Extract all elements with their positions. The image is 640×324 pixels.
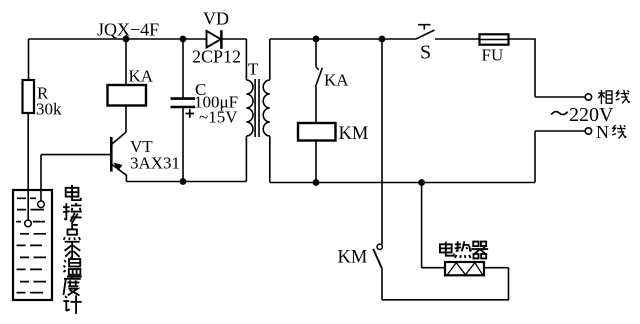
capacitor C polarity plus (186, 109, 195, 117)
label 电接点汞温度计 (electric contact mercury thermometer, vertical) (63, 185, 82, 314)
wire bottom return (382, 268, 509, 300)
thermometer body (13, 190, 52, 300)
wire S to fuse (435, 38, 480, 40)
diode VD triangle (207, 31, 221, 48)
node junction dot at KA branch (123, 36, 130, 43)
resistor R (23, 80, 35, 113)
wire thermometer right contact drop (40, 155, 42, 201)
relay coil KA (108, 85, 147, 106)
heater body (445, 262, 484, 275)
capacitor C top plate (171, 97, 196, 100)
node junction dot KM contact branch (379, 36, 386, 43)
transformer T primary lead top (245, 39, 247, 80)
wire top rail right (270, 38, 416, 40)
node junction dot at C branch (180, 36, 187, 43)
contact KM upper wire (crosses bottom rail, no junction) (381, 39, 383, 245)
terminal phase (585, 94, 591, 100)
wire fuse to right corner (509, 39, 536, 97)
node junction dot heater branch (418, 179, 425, 186)
transistor VT emitter arrow (PNP) (113, 163, 122, 171)
label ~220V (551, 112, 567, 115)
transformer T secondary winding (263, 80, 270, 136)
svg-text:KM: KM (338, 248, 368, 268)
capacitor C top wire (182, 39, 184, 98)
thermometer mercury dashes (16, 198, 46, 292)
node junction dot KM coil bottom (313, 179, 320, 186)
contactor coil KM (298, 123, 336, 141)
svg-text:KM: KM (339, 124, 369, 144)
node junction dot KA contact branch (313, 36, 320, 43)
capacitor C bottom plate (171, 106, 196, 109)
contact KM blade (373, 249, 382, 268)
svg-text:30k: 30k (36, 100, 62, 119)
svg-text:VD: VD (203, 9, 229, 29)
svg-text:~15V: ~15V (199, 108, 238, 127)
wire left vertical upper (28, 39, 30, 80)
wire heater right lead (484, 267, 509, 269)
svg-text:N: N (596, 122, 609, 142)
thermometer contact circle lower (left branch) (25, 220, 32, 227)
label 电热器 (electric heater) (440, 241, 488, 258)
wire base horizontal (41, 154, 110, 156)
contact KA blade (315, 67, 322, 87)
svg-text:FU: FU (482, 46, 504, 65)
thermometer contact circle upper (base) (38, 201, 45, 208)
terminal neutral (585, 128, 591, 134)
contact KM lower wire (381, 268, 383, 300)
fuse FU element line (480, 39, 509, 41)
fuse FU body (480, 34, 509, 44)
transistor VT collector diagonal (111, 132, 126, 144)
wire neutral lead (535, 130, 585, 132)
transistor VT emitter (111, 164, 126, 182)
contact KA lower wire (315, 87, 317, 123)
transformer T primary winding (246, 80, 253, 136)
svg-text:T: T (248, 60, 259, 79)
wire heater branch vertical (421, 183, 423, 268)
label 相线 (phase wire) (598, 90, 629, 104)
capacitor C bottom wire (182, 108, 184, 181)
transistor VT base bar (110, 137, 113, 172)
transformer T secondary lead top (269, 39, 271, 80)
wire KA branch vertical (125, 39, 127, 85)
contact KM pivot circle (377, 244, 382, 249)
switch S blade (416, 30, 435, 39)
svg-text:KA: KA (129, 67, 154, 86)
wire neutral down to bottom rail (534, 131, 536, 183)
node junction dot C bottom (180, 178, 187, 185)
svg-text:3AX31: 3AX31 (130, 154, 180, 173)
wire top rail diode segment (183, 38, 246, 40)
wire bottom rail left (emitter to transformer) (126, 181, 246, 183)
svg-text:2CP12: 2CP12 (192, 47, 241, 67)
transformer T secondary lead bottom (269, 136, 271, 183)
wire KM coil to bottom rail (315, 141, 317, 183)
wire heater left lead (422, 267, 445, 269)
wire KA coil to collector (125, 106, 127, 133)
transformer T primary lead bottom (245, 136, 247, 182)
wire top rail left (from left branch to transformer primary) (29, 38, 184, 40)
heater zigzag element (447, 263, 482, 275)
switch S tee bar (418, 25, 431, 30)
wire phase lead (535, 96, 585, 98)
wire bottom rail right (270, 182, 535, 184)
svg-text:KA: KA (324, 71, 349, 90)
wire left vertical lower (27, 113, 29, 220)
diode VD cathode bar (220, 30, 223, 49)
transformer T core (255, 79, 259, 137)
contact KA upper wire (315, 39, 317, 67)
svg-text:S: S (420, 42, 431, 64)
